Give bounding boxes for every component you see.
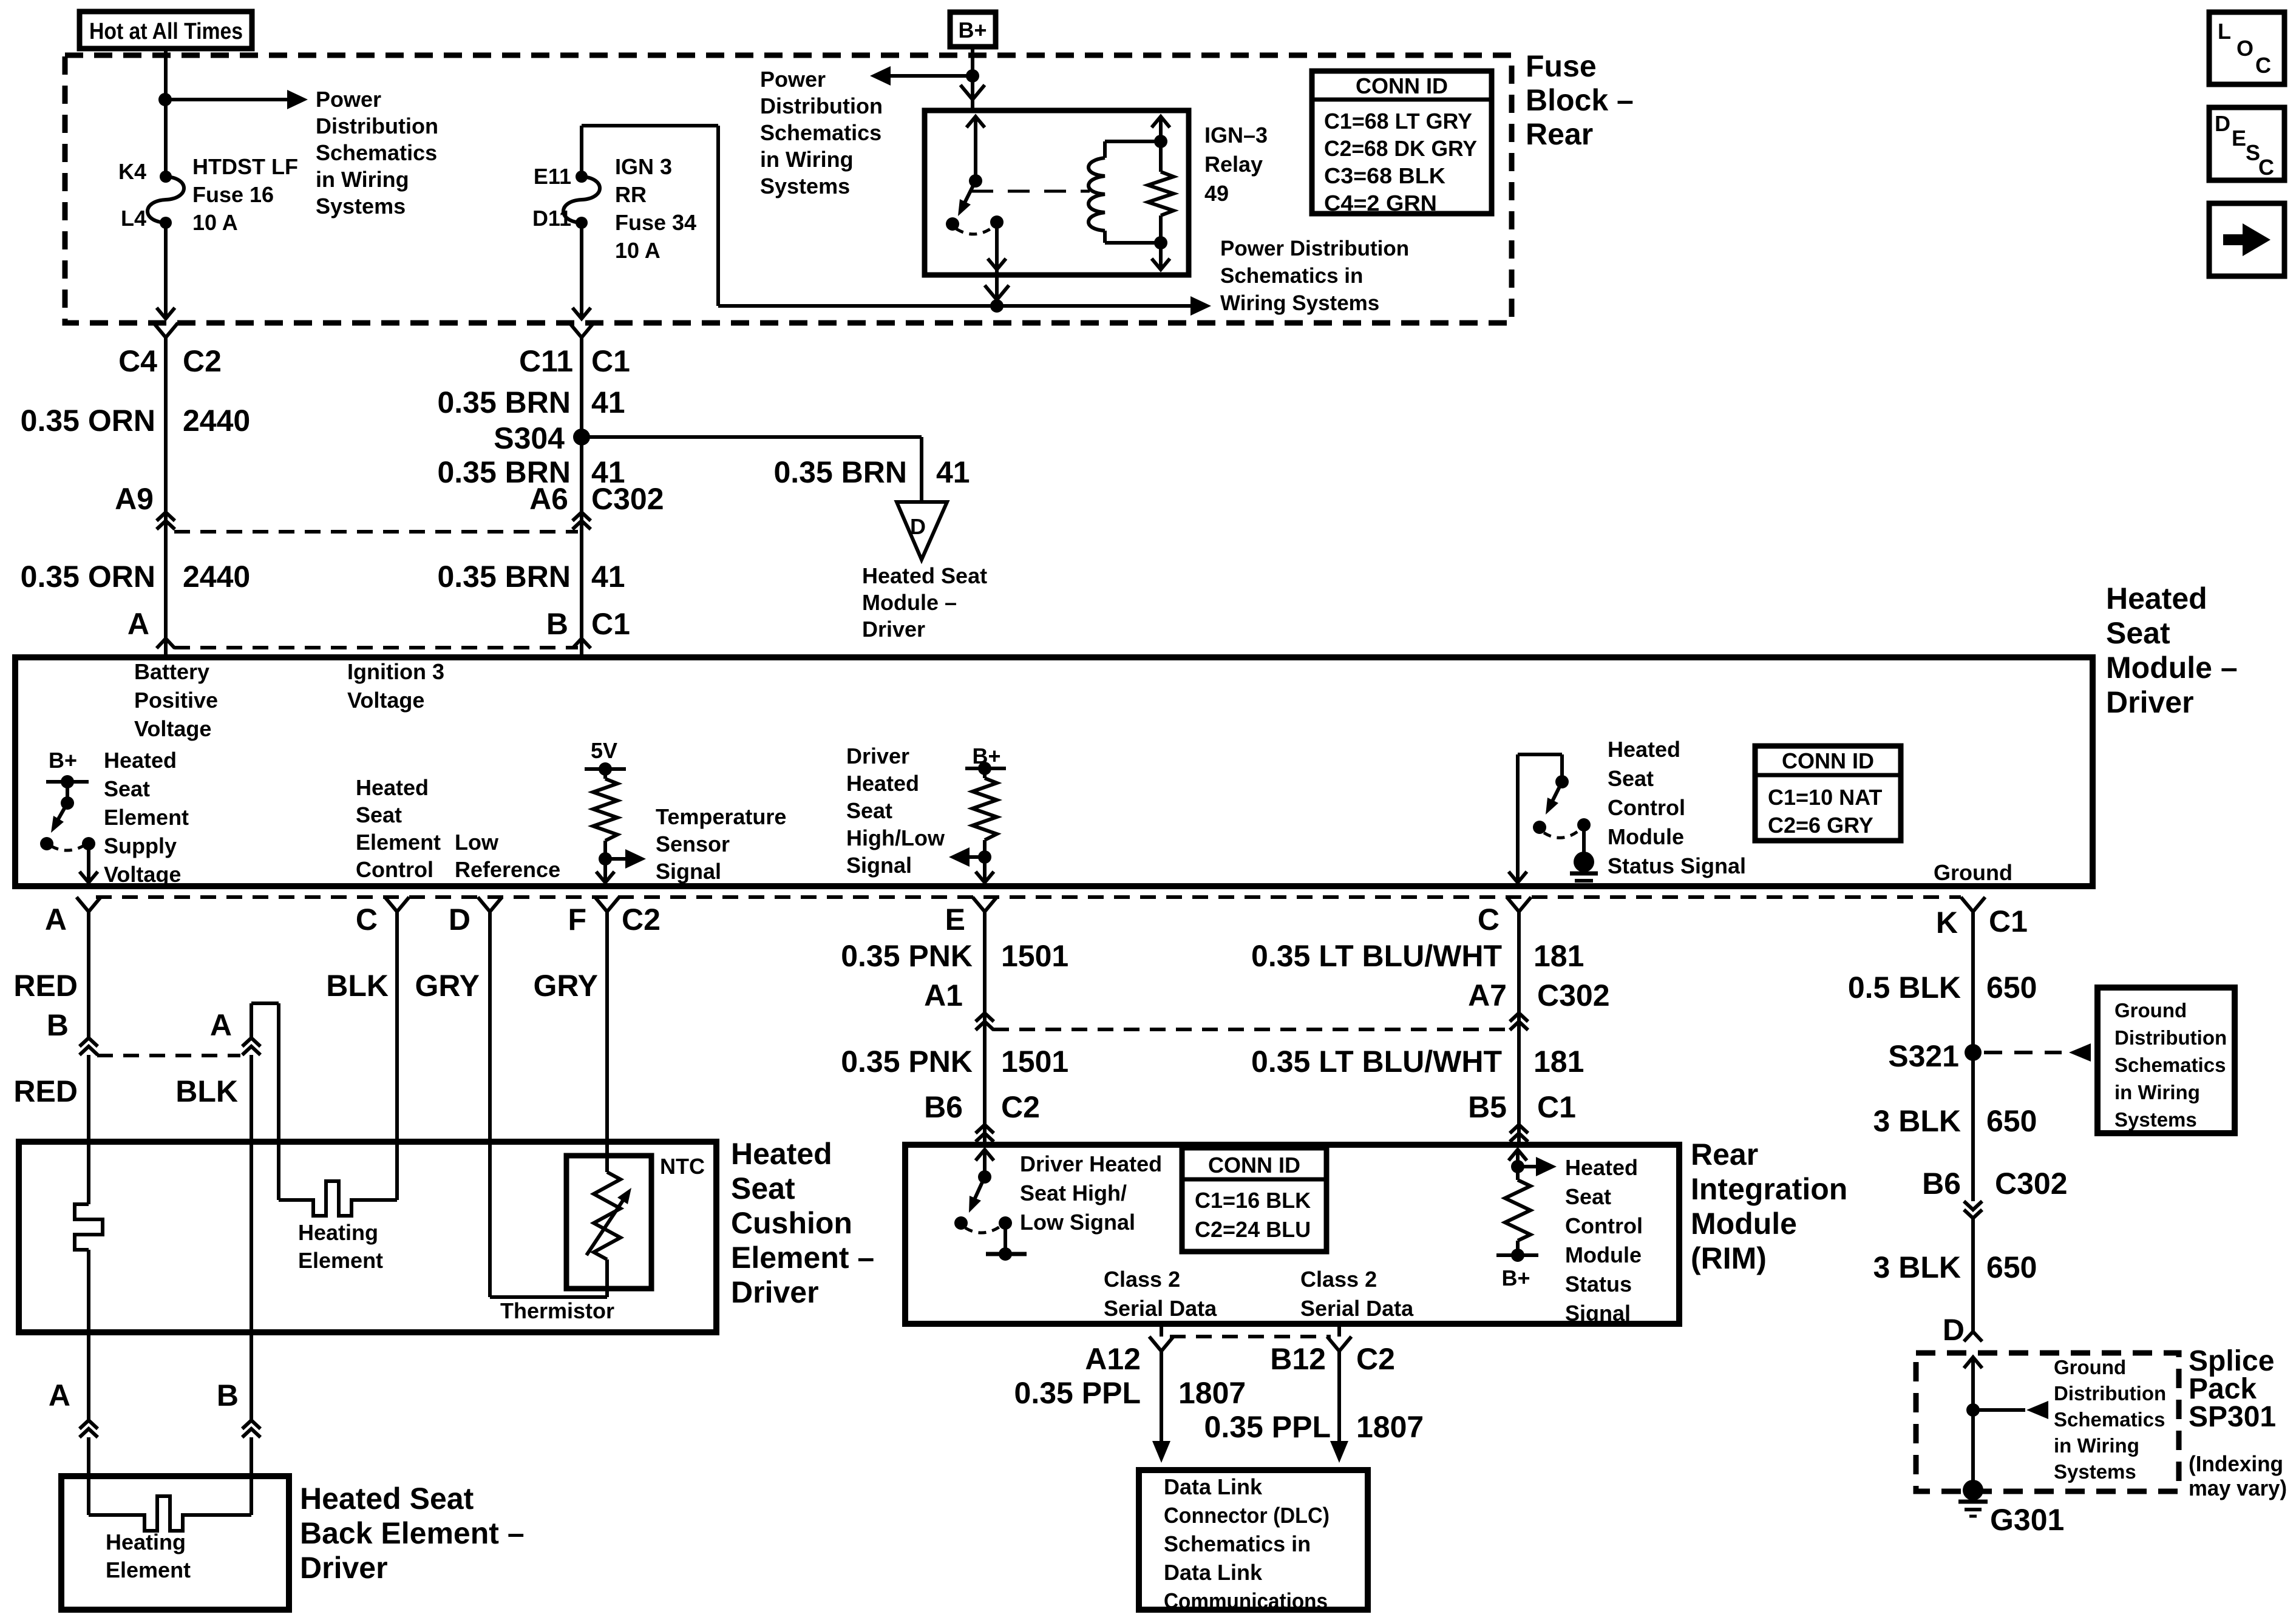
svg-text:Driver: Driver	[2106, 685, 2194, 719]
wire corner vertical	[716, 126, 720, 306]
ground G301 symbol	[1958, 1500, 1988, 1504]
svg-text:0.35 LT BLU/WHT: 0.35 LT BLU/WHT	[1251, 939, 1502, 973]
svg-text:Schematics: Schematics	[2054, 1408, 2165, 1431]
svg-text:K4: K4	[118, 159, 146, 184]
fuse block CONN ID table	[1312, 71, 1492, 214]
svg-text:0.35 PPL: 0.35 PPL	[1204, 1410, 1331, 1444]
relay coil top rail	[1105, 140, 1161, 143]
svg-text:Serial Data: Serial Data	[1300, 1296, 1414, 1321]
connector A chevron	[157, 639, 175, 648]
wire 0.35 PPL A12	[1160, 1361, 1163, 1442]
relay output wire	[995, 222, 999, 306]
connector fork pin C	[385, 897, 409, 912]
svg-text:0.35 BRN: 0.35 BRN	[773, 455, 907, 489]
svg-text:Thermistor: Thermistor	[500, 1298, 614, 1323]
svg-text:10 A: 10 A	[192, 210, 238, 235]
svg-text:Element: Element	[298, 1248, 383, 1273]
svg-text:0.35 PNK: 0.35 PNK	[841, 1045, 973, 1079]
svg-text:Seat High/: Seat High/	[1020, 1181, 1127, 1205]
connector fork at relay B+ input	[960, 85, 985, 100]
wire BLK element control	[395, 921, 399, 1200]
module top connector dashed line	[174, 646, 578, 649]
RIM B+ bar	[1496, 1253, 1538, 1257]
Heated Seat Module Driver box	[15, 657, 2093, 886]
svg-text:C4: C4	[118, 344, 157, 378]
svg-text:Distribution: Distribution	[760, 93, 883, 118]
svg-text:in Wiring: in Wiring	[316, 167, 409, 192]
connector A1 chevrons	[976, 1013, 994, 1022]
svg-text:C1=10 NAT: C1=10 NAT	[1768, 785, 1882, 810]
svg-text:Heated: Heated	[356, 775, 429, 800]
svg-text:Serial Data: Serial Data	[1104, 1296, 1217, 1321]
svg-text:Systems: Systems	[2114, 1108, 2197, 1131]
svg-text:S304: S304	[494, 421, 565, 455]
svg-text:Distribution: Distribution	[2054, 1382, 2166, 1405]
svg-text:Class 2: Class 2	[1300, 1267, 1377, 1292]
relay coil bottom junction dot	[1154, 236, 1167, 249]
svg-text:A6: A6	[529, 482, 568, 516]
wire S304 branch to module driver triangle	[582, 435, 922, 439]
svg-text:1501: 1501	[1001, 1045, 1068, 1079]
connector fork pin K	[1961, 897, 1985, 912]
svg-text:C2: C2	[622, 903, 661, 937]
wire horizontal to power distribution arrow	[718, 304, 1193, 308]
connector fork pin F	[595, 897, 619, 912]
svg-text:C: C	[2258, 155, 2274, 180]
wire 0.35 BRN 41 lower	[580, 532, 583, 657]
junction dot on B+ feed	[966, 69, 979, 83]
svg-text:Positive: Positive	[134, 688, 218, 713]
svg-text:Ground: Ground	[2054, 1356, 2126, 1378]
splice pack branch node	[1966, 1403, 1980, 1417]
wire RED pin B lower	[87, 1055, 90, 1204]
connector B chevrons (back element)	[242, 1420, 260, 1429]
status signal switch hook wire	[1518, 753, 1562, 756]
svg-text:Heated: Heated	[846, 771, 919, 796]
thermistor arrow	[586, 1197, 625, 1255]
svg-text:D: D	[910, 514, 926, 539]
svg-text:C2: C2	[183, 344, 222, 378]
connector A7 chevrons	[1510, 1013, 1528, 1022]
svg-text:2440: 2440	[183, 404, 250, 438]
svg-text:Connector (DLC): Connector (DLC)	[1164, 1503, 1330, 1528]
wire BLK pass-through cushion	[250, 1055, 253, 1420]
connector C302 dashed line (left)	[174, 530, 578, 534]
svg-text:650: 650	[1986, 1250, 2037, 1284]
RIM switch throw dot (right)	[999, 1216, 1012, 1230]
wire 0.35 PPL B12	[1337, 1361, 1341, 1442]
status switch throw dot (right)	[1577, 818, 1591, 832]
svg-text:Low Signal: Low Signal	[1020, 1210, 1135, 1235]
connector fork B12	[1327, 1337, 1351, 1351]
connector C11/C1 fork	[569, 323, 594, 337]
svg-text:5V: 5V	[591, 738, 617, 763]
wire GRY temp sensor	[605, 921, 609, 1172]
connector fork pin C	[1507, 897, 1531, 912]
wire from Hot at All Times to fuse 16	[164, 49, 168, 177]
svg-text:Rear: Rear	[1691, 1137, 1758, 1171]
ground G301 dot	[1963, 1480, 1983, 1500]
svg-text:C2: C2	[1001, 1090, 1040, 1124]
cushion heating element meander	[279, 1181, 397, 1216]
svg-text:Voltage: Voltage	[134, 716, 211, 741]
svg-text:Module –: Module –	[2106, 651, 2238, 685]
RIM high/low input arrow	[976, 1150, 994, 1161]
RIM switch dashed arc	[965, 1227, 1000, 1233]
relay switch blade	[962, 181, 976, 209]
status switch throw dot (left)	[1533, 821, 1546, 834]
connector B chevrons (cushion)	[80, 1038, 98, 1046]
splice S321 node	[1965, 1044, 1982, 1061]
svg-text:Distribution: Distribution	[2114, 1026, 2227, 1049]
svg-text:C2=24 BLU: C2=24 BLU	[1195, 1217, 1311, 1242]
svg-text:0.35 BRN: 0.35 BRN	[437, 385, 571, 419]
svg-text:C302: C302	[1995, 1167, 2068, 1201]
svg-text:HTDST LF: HTDST LF	[192, 154, 298, 179]
svg-text:Element: Element	[106, 1557, 191, 1582]
svg-text:RED: RED	[13, 969, 78, 1003]
svg-text:Heated: Heated	[1608, 737, 1680, 762]
svg-text:C: C	[356, 903, 378, 937]
RIM status resistor	[1505, 1180, 1530, 1241]
svg-text:K: K	[1936, 906, 1958, 940]
relay switch dashed arc	[956, 227, 993, 234]
svg-text:Fuse: Fuse	[1526, 49, 1597, 83]
status switch blade	[1549, 782, 1562, 807]
svg-text:Driver: Driver	[731, 1275, 819, 1309]
svg-text:C1=16 BLK: C1=16 BLK	[1195, 1188, 1311, 1213]
svg-text:0.35 ORN: 0.35 ORN	[21, 404, 155, 438]
off-page triangle D to heated seat module	[897, 502, 947, 560]
svg-text:Status Signal: Status Signal	[1608, 853, 1746, 878]
svg-text:Element: Element	[104, 805, 189, 830]
status switch ground symbol	[1570, 872, 1598, 876]
svg-text:Back Element –: Back Element –	[300, 1516, 525, 1550]
status switch ground leg	[1582, 825, 1586, 853]
junction node on battery feed	[158, 93, 172, 106]
high/low divider resistor	[983, 768, 987, 778]
svg-text:Supply: Supply	[104, 833, 177, 858]
module bottom connector dashed line	[96, 895, 1961, 899]
svg-text:Schematics: Schematics	[760, 120, 881, 145]
splice S304 node	[573, 429, 590, 446]
DESC corner box	[2209, 107, 2284, 180]
thermistor zigzag	[605, 1156, 609, 1172]
connector A9 chevrons	[157, 512, 175, 521]
svg-text:Power: Power	[760, 67, 826, 92]
connector B6 chevrons	[976, 1125, 994, 1133]
svg-text:181: 181	[1533, 939, 1584, 973]
svg-text:D: D	[1943, 1313, 1965, 1347]
svg-text:Ground: Ground	[1934, 860, 2012, 885]
wire fuse34 to corner	[580, 126, 583, 177]
svg-text:Status: Status	[1565, 1272, 1632, 1296]
in-line connector dashed (cushion)	[97, 1054, 240, 1057]
svg-text:A: A	[45, 903, 67, 937]
wire from fuse 16 to connector C4	[164, 223, 168, 316]
svg-text:Seat: Seat	[1608, 766, 1654, 791]
wire to back element B	[250, 1437, 253, 1515]
svg-text:Schematics: Schematics	[316, 140, 437, 165]
RIM status signal arrow	[1518, 1165, 1547, 1168]
svg-text:Heated Seat: Heated Seat	[862, 563, 987, 588]
svg-text:0.35 PNK: 0.35 PNK	[841, 939, 973, 973]
svg-text:NTC: NTC	[660, 1154, 705, 1179]
svg-text:0.35 PPL: 0.35 PPL	[1014, 1376, 1141, 1410]
RIM CONN ID table	[1182, 1148, 1326, 1252]
svg-text:Seat: Seat	[1565, 1184, 1611, 1209]
svg-text:A: A	[127, 607, 149, 641]
back element heating meander	[89, 1496, 251, 1531]
wire 0.5 BLK 650	[1971, 921, 1975, 1201]
relay coil	[1103, 141, 1107, 158]
svg-text:B+: B+	[958, 18, 987, 42]
relay switch throw dot (right)	[990, 215, 1004, 229]
relay coil top junction dot	[1154, 135, 1167, 148]
cushion supply element (vertical meander)	[75, 1204, 103, 1250]
svg-text:A: A	[210, 1008, 232, 1042]
LOC corner box	[2209, 12, 2284, 84]
svg-text:Low: Low	[455, 830, 499, 855]
svg-text:Element –: Element –	[731, 1241, 874, 1275]
5V supply bar	[585, 767, 626, 771]
connector B chevron	[572, 639, 591, 648]
svg-text:Integration: Integration	[1691, 1172, 1847, 1206]
wire into splice pack	[1964, 1357, 1982, 1368]
branch arrow to Power Distribution Schematics	[166, 98, 290, 101]
svg-text:SP301: SP301	[2189, 1401, 2276, 1433]
wire 0.35 PNK	[983, 921, 987, 1145]
svg-text:Data Link: Data Link	[1164, 1560, 1263, 1585]
next-page arrow box	[2209, 203, 2284, 276]
svg-text:C2=6 GRY: C2=6 GRY	[1768, 813, 1873, 838]
svg-text:B6: B6	[924, 1090, 963, 1124]
svg-text:C302: C302	[1537, 978, 1610, 1012]
svg-text:Systems: Systems	[316, 194, 406, 219]
supply switch B+ bar	[46, 780, 89, 784]
svg-text:Heated: Heated	[2106, 581, 2207, 615]
RIM switch contact	[1004, 1223, 1007, 1254]
svg-text:Class 2: Class 2	[1104, 1267, 1180, 1292]
splice pack branch arrow	[1973, 1408, 2025, 1412]
svg-text:Driver: Driver	[846, 744, 909, 768]
svg-text:in Wiring: in Wiring	[2054, 1434, 2139, 1457]
svg-text:CONN ID: CONN ID	[1356, 73, 1448, 98]
svg-text:41: 41	[936, 455, 970, 489]
svg-text:10 A: 10 A	[615, 238, 661, 263]
connector B6 chevrons down	[1964, 1201, 1982, 1210]
temperature sensor signal node	[599, 852, 612, 866]
wire BLK jog to heating element	[250, 1003, 253, 1038]
svg-text:Control: Control	[356, 857, 433, 882]
svg-text:L: L	[2218, 19, 2231, 44]
high/low divider B+ bar	[965, 767, 1006, 770]
svg-text:Cushion: Cushion	[731, 1206, 852, 1240]
supply output wire to pin A	[87, 844, 90, 883]
svg-text:C302: C302	[591, 482, 664, 516]
Heated Seat Back Element Driver box	[61, 1476, 289, 1610]
wire GRY low reference	[488, 921, 492, 1297]
svg-text:A: A	[49, 1378, 70, 1412]
svg-text:C: C	[1478, 903, 1500, 937]
svg-text:in Wiring: in Wiring	[760, 147, 854, 172]
svg-text:GRY: GRY	[415, 969, 480, 1003]
svg-text:0.35 LT BLU/WHT: 0.35 LT BLU/WHT	[1251, 1045, 1502, 1079]
svg-text:Seat: Seat	[731, 1171, 795, 1205]
Data Link Connector destination box	[1139, 1470, 1368, 1610]
RIM status signal node	[1511, 1160, 1524, 1173]
connector C4/C2 fork	[154, 323, 178, 337]
svg-text:Module: Module	[1691, 1207, 1797, 1241]
svg-text:Communications: Communications	[1164, 1588, 1328, 1613]
svg-text:IGN 3: IGN 3	[615, 154, 672, 179]
svg-text:Fuse 16: Fuse 16	[192, 182, 274, 207]
wire 0.35 LT BLU/WHT	[1517, 921, 1521, 1145]
status switch dashed arc	[1544, 831, 1578, 838]
svg-text:Systems: Systems	[2054, 1460, 2136, 1483]
svg-text:C4=2 GRN: C4=2 GRN	[1324, 191, 1437, 215]
svg-text:B: B	[546, 607, 568, 641]
connector fork pin A	[76, 897, 101, 912]
temperature sensor signal arrow	[605, 857, 637, 861]
svg-text:Schematics: Schematics	[2114, 1054, 2226, 1076]
supply switch dashed arc	[51, 845, 85, 850]
svg-text:A12: A12	[1085, 1342, 1141, 1376]
svg-text:C1: C1	[591, 607, 630, 641]
RIM switch pivot dot	[978, 1170, 991, 1184]
svg-text:Data Link: Data Link	[1164, 1474, 1263, 1499]
relay switch pivot dot	[969, 174, 982, 188]
connector A chevrons (back element)	[80, 1420, 98, 1429]
relay IGN-3 box	[925, 110, 1189, 275]
high/low signal arrow	[957, 855, 985, 859]
Hot at All Times feed label box	[80, 12, 252, 49]
svg-text:3 BLK: 3 BLK	[1873, 1250, 1961, 1284]
svg-text:E11: E11	[534, 164, 571, 189]
branch arrow to power distribution (left)	[888, 74, 973, 78]
wire 0.35 ORN 2440 lower	[164, 532, 168, 657]
svg-text:D: D	[2215, 111, 2230, 136]
svg-text:C3=68 BLK: C3=68 BLK	[1324, 163, 1445, 188]
Ground Distribution Schematics box (S321)	[2097, 988, 2235, 1133]
svg-text:Module: Module	[1608, 824, 1684, 849]
wire stub RIM to A12	[1160, 1327, 1163, 1337]
svg-text:BLK: BLK	[175, 1074, 238, 1108]
supply switch blade	[55, 803, 67, 825]
svg-text:in Wiring: in Wiring	[2114, 1081, 2200, 1103]
svg-text:E: E	[945, 903, 965, 937]
svg-text:Control: Control	[1608, 795, 1685, 820]
svg-text:may vary): may vary)	[2189, 1476, 2287, 1500]
svg-text:Heated: Heated	[1565, 1155, 1638, 1180]
svg-text:C11: C11	[519, 344, 573, 378]
svg-text:Module: Module	[1565, 1242, 1642, 1267]
connector D chevron	[1964, 1332, 1982, 1341]
wire RED pin A upper	[87, 921, 90, 1038]
svg-text:B5: B5	[1468, 1090, 1507, 1124]
wire 0.35 ORN 2440 upper	[164, 362, 168, 532]
svg-text:Temperature: Temperature	[656, 804, 786, 829]
connector fork pin E	[973, 897, 997, 912]
svg-text:1807: 1807	[1178, 1376, 1246, 1410]
svg-text:GRY: GRY	[534, 969, 599, 1003]
wire stub RIM to B12	[1337, 1327, 1341, 1337]
relay coil feed arrow up	[1152, 117, 1170, 127]
svg-text:B: B	[217, 1378, 239, 1412]
svg-text:Systems: Systems	[760, 174, 850, 198]
wire 0.35 BRN 41 upper	[580, 362, 583, 532]
svg-text:0.35 BRN: 0.35 BRN	[437, 560, 571, 594]
thermistor NTC box	[566, 1156, 651, 1289]
svg-text:Schematics in: Schematics in	[1220, 264, 1363, 288]
svg-text:Seat: Seat	[104, 776, 150, 801]
svg-text:Signal: Signal	[656, 859, 721, 884]
svg-text:Reference: Reference	[455, 857, 560, 882]
connector A chevrons (cushion mid)	[242, 1038, 260, 1046]
svg-text:Rear: Rear	[1526, 117, 1593, 151]
connector fork pin D	[478, 897, 502, 912]
svg-text:Sensor: Sensor	[656, 832, 730, 856]
svg-text:A7: A7	[1468, 978, 1507, 1012]
svg-text:C2: C2	[1356, 1342, 1395, 1376]
svg-text:C1: C1	[591, 344, 630, 378]
svg-text:O: O	[2237, 36, 2254, 61]
svg-text:Power Distribution: Power Distribution	[1220, 237, 1409, 260]
svg-text:D: D	[449, 903, 470, 937]
svg-text:B: B	[47, 1008, 69, 1042]
svg-text:Control: Control	[1565, 1213, 1643, 1238]
svg-text:0.35 ORN: 0.35 ORN	[21, 560, 155, 594]
svg-text:IGN–3: IGN–3	[1204, 123, 1268, 147]
supply switch throw dot (right)	[82, 837, 95, 850]
svg-text:650: 650	[1986, 1104, 2037, 1138]
svg-text:41: 41	[591, 560, 625, 594]
svg-text:B6: B6	[1922, 1167, 1961, 1201]
relay switch common arrow	[966, 117, 985, 127]
svg-text:1501: 1501	[1001, 939, 1068, 973]
svg-text:Heating: Heating	[298, 1220, 378, 1245]
svg-text:650: 650	[1986, 971, 2037, 1005]
relay suppression resistor	[1148, 172, 1173, 215]
relay coil bottom rail	[1105, 241, 1161, 245]
connector fork A12	[1149, 1337, 1173, 1351]
svg-text:C2=68 DK GRY: C2=68 DK GRY	[1324, 136, 1477, 161]
connector A6 chevrons	[572, 512, 591, 521]
RIM status input arrow	[1509, 1150, 1527, 1161]
svg-text:High/Low: High/Low	[846, 825, 945, 850]
svg-text:RR: RR	[615, 182, 647, 207]
connector dashed line A12-B12	[1170, 1335, 1331, 1338]
wire to back element A	[87, 1437, 90, 1515]
fuse HTDST LF Fuse 16 10A symbol	[160, 171, 172, 183]
svg-text:Fuse 34: Fuse 34	[615, 210, 696, 235]
connector B5 chevrons	[1510, 1125, 1528, 1133]
svg-text:Signal: Signal	[846, 853, 912, 878]
svg-text:(Indexing: (Indexing	[2189, 1451, 2283, 1476]
svg-text:Seat: Seat	[356, 802, 402, 827]
svg-text:Hot at All Times: Hot at All Times	[89, 19, 243, 44]
svg-text:Heating: Heating	[106, 1530, 186, 1554]
svg-text:Ignition 3: Ignition 3	[347, 659, 444, 684]
svg-text:A1: A1	[924, 978, 963, 1012]
fuse block dashed box	[65, 55, 1512, 323]
wire from B+ box to relay	[971, 47, 974, 110]
svg-text:CONN ID: CONN ID	[1782, 748, 1874, 773]
svg-text:A9: A9	[115, 482, 154, 516]
svg-text:Heated: Heated	[731, 1137, 832, 1171]
svg-text:Wiring Systems: Wiring Systems	[1220, 291, 1379, 315]
svg-text:Seat: Seat	[846, 798, 892, 823]
